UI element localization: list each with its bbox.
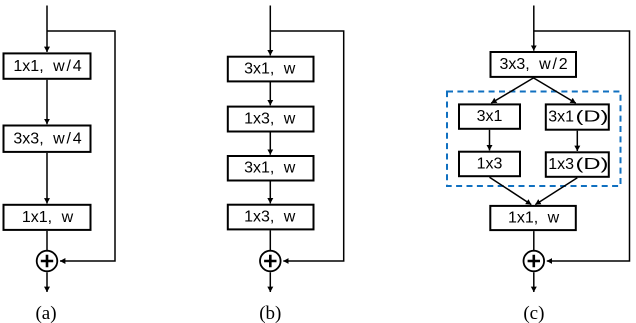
svg-text:(c): (c) <box>523 303 544 323</box>
plus sign of adder (c) <box>528 255 540 267</box>
conv box B2 "1x3, w" <box>228 107 314 132</box>
conv box C4 "3x1(D)" <box>546 104 609 129</box>
wire: box3 to adder (a) <box>46 231 48 250</box>
wire: skip branch of block (b) from input to adder <box>270 31 343 261</box>
conv box C5 "1x3(D)" <box>546 152 609 177</box>
wire: arrow box1 to box2 (a) <box>46 80 48 124</box>
svg-text:3x1: 3x1 <box>477 108 503 125</box>
conv box C3 "1x3" <box>459 152 520 177</box>
wire: skip branch of block (c) from input to adder <box>534 31 630 261</box>
svg-text:1x1, w: 1x1, w <box>22 209 74 226</box>
conv box B4 "1x3, w" <box>228 205 314 230</box>
svg-text:3x1, w: 3x1, w <box>244 160 296 177</box>
adder circle (a) <box>37 251 58 272</box>
wire: arrow 3x1(D) to 1x3(D) <box>576 131 578 151</box>
wire: output arrow of block (c) <box>533 272 535 292</box>
conv box C6 "1x1, w" <box>490 206 576 230</box>
conv box B3 "3x1, w" <box>228 156 314 181</box>
adder circle (c) <box>524 251 545 272</box>
wire: arrow B1 to B2 <box>269 81 271 105</box>
svg-text:1x3: 1x3 <box>477 156 503 173</box>
wire: output arrow of block (b) <box>269 272 271 292</box>
wire: output arrow of block (a) <box>46 272 48 292</box>
wire: arrow box2 to box3 (a) <box>46 153 48 204</box>
conv box B1 "3x1, w" <box>228 57 314 82</box>
wire: input arrow into block (c) <box>533 6 535 51</box>
svg-text:1x1, w: 1x1, w <box>508 210 560 227</box>
wire: B4 to adder (b) <box>269 230 271 250</box>
wire: C6 to adder (c) <box>533 231 535 250</box>
svg-text:1x3, w: 1x3, w <box>244 209 296 226</box>
wire: converging arrow 1x3(D) to 1x1,w <box>535 178 577 205</box>
svg-text:1x3, w: 1x3, w <box>244 111 296 128</box>
dashed group rectangle <box>447 92 621 187</box>
conv box R3 "1x1, w" <box>4 205 91 230</box>
conv box R2 "3x3, w/4" <box>4 126 91 152</box>
svg-text:(b): (b) <box>259 303 281 323</box>
adder circle (b) <box>260 251 281 272</box>
conv box C1 "3x3, w/2" <box>491 52 577 77</box>
wire: input arrow into block (b) <box>269 6 271 56</box>
wire: diverging arrow C1 to 3x1 <box>491 78 533 103</box>
wire: arrow 3x1 to 1x3 <box>489 130 491 151</box>
svg-text:1x3(D): 1x3(D) <box>548 156 608 173</box>
wire: diverging arrow C1 to 3x1(D) <box>534 78 576 103</box>
plus sign of adder (a) <box>41 255 53 267</box>
svg-text:3x1, w: 3x1, w <box>244 61 296 78</box>
wire: skip branch of block (a) from input to adder <box>47 31 115 261</box>
conv box R1 "1x1, w/4" <box>4 53 91 78</box>
wire: arrow B2 to B3 <box>269 132 271 155</box>
conv box C2 "3x1" <box>459 104 520 128</box>
svg-text:(a): (a) <box>35 303 56 323</box>
wire: converging arrow 1x3 to 1x1,w <box>490 177 532 204</box>
svg-text:3x1(D): 3x1(D) <box>548 109 608 126</box>
wire: input arrow into block (a) <box>46 6 48 53</box>
plus sign of adder (b) <box>264 255 276 267</box>
wire: arrow B3 to B4 <box>269 181 271 204</box>
